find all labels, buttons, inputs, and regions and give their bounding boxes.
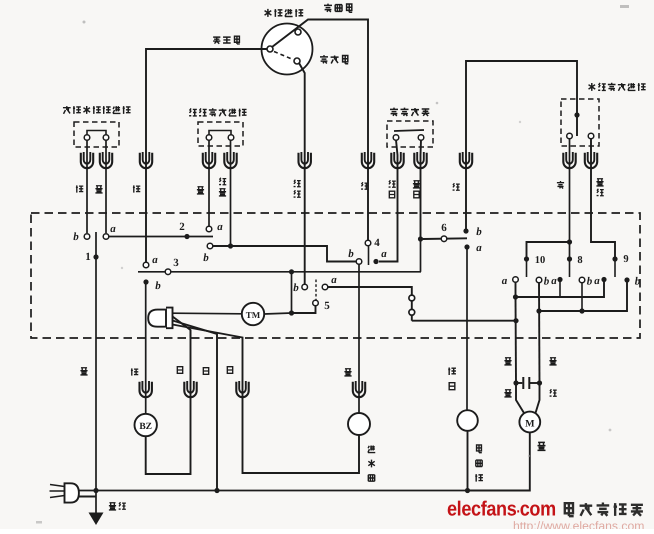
timer unit dashed enclosure (31, 213, 640, 338)
safety switch 安全开关 dashed box (387, 121, 433, 147)
rotary NO dashed arm (274, 52, 293, 60)
contact 6 pole line (423, 237, 467, 240)
selector box 不排水停机选择 (no-drain stop select) dashed box (74, 122, 119, 147)
safety contact L circle (393, 135, 399, 141)
svg-text:b: b (476, 226, 482, 238)
wire common-point to brown connector, then down into timer (146, 49, 270, 262)
wire solenoid to bottom bus (467, 431, 469, 491)
label 橙 (131, 368, 138, 375)
junction dot black-bus (93, 488, 98, 493)
SW2 contact L circle (84, 135, 90, 141)
connector 紫 (purple) (203, 152, 215, 168)
SW3 contact R circle (228, 135, 234, 141)
connector 蓝红 (blue-red) (585, 152, 597, 168)
wire a10 chain to motor (516, 383, 524, 413)
svg-text:3: 3 (173, 257, 179, 269)
wire NC arm to red connector down into timer (272, 20, 368, 241)
rotary switch SW1 (water level selector) body circle (262, 24, 313, 75)
contact 4 terminal a dot (373, 259, 378, 264)
svg-text:b: b (635, 276, 641, 288)
label 白 (white1) (177, 367, 182, 374)
label 常闭点 (normally-closed point) (324, 4, 332, 12)
label 黑 (black mains) (80, 368, 87, 375)
SW3 contact L circle (206, 135, 212, 141)
contact 5 dashed arm (315, 280, 317, 301)
svg-text:b: b (587, 276, 593, 288)
watermark 电子发烧友 (565, 503, 643, 517)
label 常开点 (normally-open point) (320, 55, 328, 63)
program cam end-cap (166, 308, 173, 329)
wire contact5-a to pressure contact (328, 287, 412, 321)
cam fan wire to white2 (173, 321, 218, 492)
svg-text:TM: TM (246, 310, 261, 320)
contact 10 arm (526, 259, 528, 277)
wire TM to program cam (173, 312, 242, 315)
junction dot light-blue on b2 line (228, 243, 233, 248)
mains plug prongs (50, 485, 65, 487)
TM node junction dot (289, 310, 294, 315)
rotary NO contact circle (294, 58, 300, 64)
label 绿 (453, 183, 460, 190)
pressure contact lower circle (409, 309, 415, 315)
long bus junction dot at x291 (289, 269, 294, 274)
wire blue-red: water-flow selector down to pole of contact 9 (591, 139, 615, 259)
contact 2 pole line from contact1-a to arm tip (109, 236, 213, 238)
capacitor C1 left lead (516, 382, 522, 384)
svg-text:8: 8 (577, 255, 582, 266)
capacitor left junction dot (513, 380, 518, 385)
wire blue-white: safety switch to contact 6 pole (420, 140, 423, 239)
label 棕 (133, 185, 140, 192)
capacitor right junction dot (537, 380, 542, 385)
selector SW2 bridge bar (87, 131, 106, 137)
wire inlet valve bottom to white wire 3 (173, 325, 360, 474)
junction dot solenoid-bus (465, 488, 470, 493)
junction dot grey/bracket (567, 239, 572, 244)
wire blue: SW2 to connector to contact 1 terminal a (105, 140, 107, 233)
contact 5 terminal a circle (322, 284, 328, 290)
scan speck 7 (528, 455, 530, 457)
label 灰 (557, 181, 564, 189)
contact 10 terminal a circle (513, 277, 519, 283)
buzzer BZ circle (135, 414, 157, 436)
wire orange: contact3-b down to buzzer (145, 284, 147, 414)
label 红 (361, 182, 368, 189)
wire purple: SW3 to contact 2 terminal a (208, 140, 210, 226)
svg-text:a: a (217, 221, 223, 233)
junction dot b8 (579, 308, 584, 313)
label 黑 (valve) (344, 369, 351, 376)
svg-text:a: a (110, 223, 116, 235)
label 蓝 (blue, left bottom) (504, 390, 511, 397)
pressure contact upper circle (409, 295, 415, 301)
contact 4 terminal b circle (356, 259, 362, 265)
label 蓝红 (596, 179, 603, 186)
svg-text:http://www.elecfans.com: http://www.elecfans.com (513, 519, 644, 529)
selector box 漂洗方式选择 (rinse mode select) dashed box (198, 122, 243, 146)
water-flow contact R circle (588, 133, 594, 139)
rotary NC contact circle (295, 29, 301, 35)
svg-text:6: 6 (441, 222, 447, 234)
contact 2 pole dot (184, 234, 189, 239)
wire contact6 pole down to long bus (420, 239, 422, 272)
cam fan wire to white1 (173, 317, 191, 339)
label 蓝 (95, 186, 102, 193)
wire motor to bottom bus (468, 433, 530, 491)
contact 6 pole junction dot (blue-white) (418, 236, 423, 241)
connector 白 (white1) (184, 381, 196, 397)
wire light-blue: SW3 down to junction on contact2 b-line (230, 140, 232, 246)
water-flow junction dot (574, 112, 579, 117)
contact 6 terminal a dot (464, 244, 469, 249)
contact 8 arm (569, 259, 571, 277)
contact 1 pole wire (black) down through box to plug/ground (95, 232, 97, 514)
contact 3 terminal b dot (orange wire) (143, 279, 148, 284)
scan speck 8 (36, 521, 42, 524)
wire b10 chain to motor (536, 383, 540, 413)
svg-text:9: 9 (623, 254, 628, 265)
junction dot a10 (513, 294, 518, 299)
svg-text:5: 5 (324, 300, 330, 312)
timer motor TM circle (242, 303, 264, 325)
contact 3 pole line across box (138, 271, 421, 273)
inlet valve circle (348, 413, 370, 435)
svg-text:a: a (476, 242, 482, 254)
contact 10 pole dot (524, 256, 529, 261)
wire plug to ground drop (79, 496, 96, 498)
svg-text:a: a (331, 274, 337, 286)
svg-text:a: a (594, 275, 600, 287)
svg-text:2: 2 (179, 221, 185, 233)
contact 8 terminal a dot (557, 277, 562, 282)
label 水流方式选择 (589, 83, 596, 91)
scan speck 1 (620, 5, 629, 8)
connector 棕 (brown) on common wire (140, 152, 152, 168)
rotary common contact circle (267, 46, 273, 52)
wire buzzer to white wire 1 (bottom bridge) (146, 330, 191, 474)
wire peach: SW2 to connector to contact 1 terminal b (86, 140, 88, 233)
svg-text:a: a (381, 248, 387, 260)
label 紫 (197, 187, 204, 194)
connector 黑 (black, inlet valve) (353, 381, 365, 397)
svg-text:b: b (203, 252, 209, 264)
wire junction down to TM node (291, 272, 293, 313)
SW2 contact R circle (103, 135, 109, 141)
label 水位选择 (water level select) (265, 9, 272, 17)
svg-text:a: a (152, 254, 158, 266)
connector 红白 (red-white) (391, 152, 403, 168)
connector 浅绿 (light green) on NO wire (299, 152, 311, 168)
label 白 (white2) (203, 368, 208, 375)
junction dot b10 (536, 308, 541, 313)
connector 浅蓝 (light blue) (224, 152, 236, 168)
wire red-white: safety switch to contact 4 terminal a (379, 140, 398, 262)
wire a-terminals bus (a10-a8-a9) (516, 282, 605, 297)
bottom neutral bus wire (78, 490, 468, 492)
contact 4 arm (368, 246, 370, 265)
wire brown-white: contact6-a down to solenoid (466, 250, 468, 412)
bracket wire: grey junction to contact10 pole (527, 242, 570, 259)
label 安全开关 (390, 108, 398, 116)
junction dot a-chain at y320 (513, 318, 518, 323)
wire grey: water-flow selector down to poles of contacts 10 and 8 (569, 139, 571, 259)
svg-text:BZ: BZ (139, 422, 152, 432)
svg-text:a: a (551, 275, 557, 287)
svg-text:b: b (348, 248, 354, 260)
contact 9 terminal a dot (601, 277, 606, 282)
contact 2 terminal a circle (206, 226, 212, 232)
scan speck 6 (609, 429, 612, 432)
contact 5 terminal b circle (light-green) (302, 284, 308, 290)
program cam body (148, 310, 166, 327)
wire pressure contact to a10 chain (412, 320, 516, 322)
selector SW3 bridge bar (209, 131, 231, 137)
svg-text:a: a (502, 275, 508, 287)
svg-text:b: b (73, 231, 79, 243)
safety contact R circle (418, 135, 424, 141)
label 不排水停机选择 (63, 106, 71, 114)
svg-text:1: 1 (85, 251, 91, 263)
wire NO contact to light-green connector down to contact 5b (299, 63, 305, 284)
water-flow contact L circle (567, 133, 573, 139)
svg-text:b: b (293, 282, 299, 294)
connector 橙 (orange) (140, 381, 152, 397)
wire a8 drop (559, 282, 561, 297)
ground symbol (89, 513, 104, 526)
wire green: contact 6 terminal b up and over to water-flow selector (466, 61, 577, 231)
label 黄绿 (yellow-green) (109, 503, 116, 510)
svg-text:elecfans.com: elecfans.com (447, 498, 556, 521)
label 紫 (violet, right top) (549, 358, 556, 365)
motor M circle (519, 412, 540, 433)
wire contact5 pivot to TM node (292, 306, 316, 313)
label 蓝白 (413, 181, 420, 188)
connector 桃 (peach) (81, 152, 93, 168)
contact 5 pivot circle (313, 300, 319, 306)
connector 蓝白 (blue-white) (414, 152, 426, 168)
connector 白 (white3) (236, 381, 248, 397)
label 蓝 (blue, left top) (504, 358, 511, 365)
label 公共点 (common point) (213, 37, 220, 44)
label 桃 (76, 185, 83, 192)
wire contact2-b to contact4-b (213, 246, 356, 262)
wire black: contact4-b down to inlet valve (358, 264, 360, 413)
contact 3 pivot circle (165, 269, 171, 275)
contact 2 terminal b circle (207, 243, 213, 249)
watermark elecfans.com (447, 498, 556, 521)
label 红白 (389, 180, 396, 187)
label 漂洗方式选择 (189, 108, 197, 115)
contact 6 terminal b dot (463, 228, 468, 233)
svg-text:10: 10 (535, 255, 546, 266)
svg-text:b: b (544, 276, 550, 288)
scan speck 2 (83, 21, 86, 24)
wire b bus horizontal (539, 283, 627, 312)
scan speck 3 (436, 102, 439, 105)
solenoid (drain electromagnet) circle (457, 410, 478, 431)
wire b-terminals bus (b10-b8-b9) (538, 283, 541, 383)
contact 4 pivot circle (365, 240, 371, 246)
contact 1 pole junction dot (93, 254, 98, 259)
wire a10 chain down to capacitor/motor (515, 297, 518, 383)
label 浅蓝 (219, 178, 226, 185)
label 黄 (yellow) (538, 442, 546, 450)
contact 1 terminal b circle (84, 234, 90, 240)
contact 3 terminal a circle (brown wire) (143, 262, 149, 268)
connector 红 (red) on NC wire (362, 152, 374, 168)
capacitor C1 right lead (530, 382, 540, 384)
svg-text:4: 4 (374, 237, 380, 249)
contact 8 terminal b circle (579, 277, 585, 283)
scan speck 5 (121, 267, 123, 269)
label 红 (red, right bottom) (550, 389, 557, 396)
label 棕白 (brown-white) (448, 367, 456, 375)
svg-text:M: M (525, 419, 535, 430)
svg-text:b: b (155, 280, 161, 292)
contact 8 pole dot (567, 256, 572, 261)
label 浅绿 (294, 180, 301, 187)
selector box 水流方式选择 (water flow mode) dashed box (561, 99, 599, 146)
scan speck 4 (519, 121, 521, 123)
safety switch bridge bar (394, 130, 424, 131)
mains plug body (65, 483, 79, 502)
contact 1 terminal a circle (103, 234, 109, 240)
contact 10 terminal b circle (536, 277, 542, 283)
contact 9 terminal b dot (624, 277, 629, 282)
contact 9 arm (614, 259, 616, 277)
connector 绿 (green) (460, 152, 472, 168)
label 进水阀 (inlet valve) (368, 445, 375, 452)
label 电磁铁 (electromagnet) (477, 445, 482, 453)
wire TM to node (264, 313, 291, 314)
wire b8 drop (581, 283, 583, 311)
connector 蓝 (blue) (100, 152, 112, 168)
contact 6 pivot circle (441, 236, 447, 242)
connector 灰 (grey) (563, 152, 575, 168)
capacitor C1 plates (522, 377, 524, 389)
label 白 (white3) (227, 367, 232, 374)
contact 9 pole dot (612, 256, 617, 261)
junction dot white2-bus (214, 488, 219, 493)
